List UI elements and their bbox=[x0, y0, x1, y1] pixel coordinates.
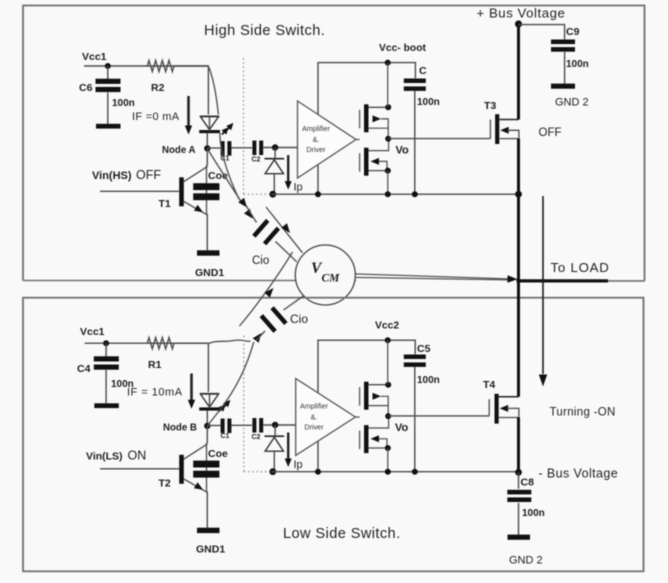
svg-text:GND1: GND1 bbox=[196, 544, 225, 556]
node B bbox=[163, 423, 211, 434]
ground bar C4 bbox=[94, 403, 119, 408]
wire upper source (bottom) bbox=[368, 406, 388, 417]
wire C8 to ground bbox=[518, 503, 520, 535]
label OFF at T3 bbox=[539, 127, 562, 139]
svg-text:100n: 100n bbox=[566, 59, 589, 70]
wire Vcc1 to C4 bbox=[105, 343, 107, 358]
svg-text:Coe: Coe bbox=[208, 448, 228, 460]
wire source to rail (bottom) bbox=[387, 448, 389, 472]
op-amp U2 Amplifier-Driver (bottom) bbox=[296, 379, 356, 456]
optocoupler dashed boundary (bottom) bbox=[244, 336, 270, 472]
svg-text:Turning -ON: Turning -ON bbox=[550, 407, 616, 419]
svg-text:T3: T3 bbox=[484, 100, 496, 112]
wire cathode to node A bbox=[206, 133, 208, 148]
current arrow IF=0mA (top) bbox=[132, 96, 192, 135]
svg-text:Vo: Vo bbox=[395, 422, 409, 434]
flow arrowhead 1 (top) bbox=[238, 198, 247, 208]
bus wire load down to T4 bbox=[517, 281, 520, 397]
wire LED to node A bbox=[209, 117, 211, 131]
svg-text:R2: R2 bbox=[151, 82, 165, 94]
capacitor C4 bbox=[77, 356, 134, 390]
svg-text:Amplifier: Amplifier bbox=[300, 402, 329, 411]
wire T1 emitter to GND1 bbox=[206, 214, 208, 250]
current arrow IF=10mA (bottom) bbox=[127, 374, 195, 409]
svg-text:&.: &. bbox=[313, 135, 320, 144]
wire C2 to amp input (bottom) bbox=[263, 424, 295, 426]
wire Vo to T3 gate bbox=[388, 138, 490, 140]
svg-text:100n: 100n bbox=[417, 375, 440, 386]
current flow long arrow bbox=[539, 196, 547, 387]
wire upper drain (bottom) bbox=[368, 382, 391, 388]
common-mode curve from R2 corner (top) bbox=[209, 68, 239, 200]
svg-text:GND 2: GND 2 bbox=[555, 97, 589, 109]
wire lower drain to Vo (top) bbox=[368, 139, 388, 151]
wire C5 to bottom rail bbox=[414, 367, 416, 472]
LED light arrows (bottom) bbox=[219, 400, 231, 412]
svg-text:T2: T2 bbox=[159, 478, 171, 490]
svg-text:To LOAD: To LOAD bbox=[551, 260, 610, 275]
svg-text:- Bus Voltage: - Bus Voltage bbox=[539, 467, 619, 481]
wire node to photodiode (top) bbox=[274, 148, 276, 159]
svg-text:Node B: Node B bbox=[163, 423, 197, 434]
wire bus voltage to C9 bbox=[519, 25, 565, 40]
capacitor C9 bbox=[551, 26, 589, 70]
svg-text:&.: &. bbox=[311, 413, 318, 422]
wire T2 emitter to GND1 bbox=[206, 492, 208, 528]
svg-text:Ip: Ip bbox=[294, 459, 303, 471]
svg-text:C6: C6 bbox=[79, 82, 93, 94]
wire rail to upper drain (bottom) bbox=[387, 340, 389, 385]
ground bar GND1 (top) bbox=[195, 250, 224, 279]
wire VCM to load node bbox=[355, 274, 510, 280]
wavy wire R1 corner (bottom) bbox=[208, 340, 250, 344]
node A bbox=[162, 145, 211, 156]
svg-text:IF =0 mA: IF =0 mA bbox=[132, 111, 180, 123]
svg-text:T1: T1 bbox=[159, 198, 171, 210]
svg-text:Vin(HS): Vin(HS) bbox=[92, 170, 132, 182]
svg-text:C9: C9 bbox=[566, 26, 580, 38]
wire node to photodiode (bottom) bbox=[274, 425, 276, 436]
capacitor C (top) bbox=[404, 65, 440, 108]
mosfet driver lower (top) bbox=[360, 148, 369, 176]
wire T3 drain to bus bbox=[499, 119, 518, 121]
enclosure box Low Side bbox=[23, 298, 644, 572]
wire C to bottom rail (top) bbox=[414, 91, 416, 194]
svg-text:GND1: GND1 bbox=[195, 267, 224, 279]
svg-text:T4: T4 bbox=[483, 379, 495, 391]
body arrow lower (top) bbox=[371, 158, 388, 171]
LED light arrows (top) bbox=[222, 123, 234, 135]
node - Bus Voltage bbox=[515, 467, 618, 481]
wire C9 to ground bbox=[564, 52, 566, 84]
wire T1 collector to node A bbox=[206, 148, 208, 165]
mosfet driver upper (top) bbox=[360, 104, 369, 132]
wire amp left vertical (top) bbox=[317, 164, 319, 195]
svg-text:C: C bbox=[419, 65, 427, 77]
wire C6 to ground bbox=[107, 93, 109, 124]
wire R1 to LED corner bbox=[174, 343, 208, 392]
photodiode (bottom) bbox=[265, 436, 285, 451]
node Vcc2 rail bbox=[375, 321, 399, 344]
capacitor C1 (top) bbox=[221, 141, 232, 162]
capacitor Cio (bottom) bbox=[260, 306, 309, 333]
svg-text:Amplifier: Amplifier bbox=[302, 124, 331, 133]
node Vo (top) bbox=[385, 136, 409, 157]
LED optocoupler (bottom) bbox=[199, 394, 220, 411]
svg-text:OFF: OFF bbox=[136, 168, 161, 182]
wire to Cio (top) bbox=[246, 206, 257, 223]
wire lower drain to Vo (bottom) bbox=[368, 416, 388, 428]
wire amp rail top (top) bbox=[318, 63, 415, 116]
ground bar C6 bbox=[96, 124, 121, 129]
svg-text:Vcc1: Vcc1 bbox=[82, 51, 107, 63]
wire To LOAD thick bbox=[517, 279, 609, 282]
label High Side Switch bbox=[204, 23, 325, 39]
node + Bus Voltage bbox=[515, 20, 522, 27]
wire T4 source bbox=[499, 417, 519, 419]
LED optocoupler (top) bbox=[199, 116, 220, 133]
svg-text:Cio: Cio bbox=[252, 255, 269, 267]
wire Vcc1 rail (top) bbox=[84, 65, 208, 67]
svg-text:Driver: Driver bbox=[306, 145, 326, 154]
svg-text:Cio: Cio bbox=[290, 312, 308, 326]
wire amp rail top (bottom) bbox=[318, 340, 415, 393]
mosfet driver lower (bottom) bbox=[360, 425, 369, 453]
svg-text:+ Bus Voltage: + Bus Voltage bbox=[477, 6, 566, 21]
transistor T1 bbox=[159, 166, 208, 215]
label Vin(HS) bbox=[92, 168, 161, 182]
svg-text:Vin(LS): Vin(LS) bbox=[86, 451, 123, 463]
common-mode curve from node A (top) bbox=[209, 151, 242, 202]
svg-text:R1: R1 bbox=[148, 359, 162, 371]
flow annotation arrow (top) bbox=[266, 207, 303, 253]
wire Vcc1 rail (bottom) bbox=[85, 342, 209, 344]
svg-text:High Side Switch.: High Side Switch. bbox=[204, 23, 325, 39]
junction source rail (bottom) bbox=[385, 469, 391, 475]
capacitor C8 bbox=[507, 477, 544, 520]
wire photodiode to rail (top) bbox=[273, 174, 275, 194]
resistor R1 bbox=[147, 338, 174, 371]
current arrow Ip (top) bbox=[285, 155, 303, 193]
svg-text:100n: 100n bbox=[417, 97, 440, 108]
wire C1 to C2 (top) bbox=[232, 147, 253, 149]
wire -bus node to C8 bbox=[518, 472, 520, 488]
svg-text:Ip: Ip bbox=[294, 182, 303, 194]
svg-text:C8: C8 bbox=[521, 477, 535, 489]
wire lower source (bottom) bbox=[368, 445, 390, 451]
optocoupler dashed boundary (top) bbox=[244, 58, 271, 194]
junction C2-diode (bottom) bbox=[272, 422, 278, 428]
body arrow upper (top) bbox=[373, 115, 389, 128]
wire lower source (top) bbox=[368, 168, 390, 174]
wire R2 to LED corner bbox=[174, 66, 208, 115]
enclosure box High Side bbox=[23, 6, 645, 281]
capacitor C6 bbox=[79, 79, 135, 109]
flow arrowhead (bottom) bbox=[253, 333, 262, 343]
body arrow lower (bottom) bbox=[371, 435, 388, 448]
label Turning -ON bbox=[550, 407, 616, 419]
svg-text:C2: C2 bbox=[252, 434, 261, 441]
photodiode (top) bbox=[265, 159, 285, 174]
wire node B to C1 bbox=[207, 425, 220, 427]
junction C5 rail (bottom) bbox=[412, 469, 418, 475]
capacitor C2 (top) bbox=[252, 141, 264, 164]
body arrow T3 bbox=[500, 127, 519, 139]
wire amp bottom rail (bottom) bbox=[272, 471, 519, 473]
mosfet driver upper (bottom) bbox=[360, 382, 369, 410]
svg-text:C4: C4 bbox=[77, 363, 91, 375]
body arrow upper (bottom) bbox=[373, 393, 389, 406]
label + Bus Voltage bbox=[477, 6, 566, 21]
svg-text:ON: ON bbox=[128, 449, 147, 463]
junction photodiode-rail (top) bbox=[269, 191, 276, 198]
junction C rail (top) bbox=[412, 191, 418, 197]
junction source rail (top) bbox=[385, 191, 391, 197]
ground bar GND1 (bottom) bbox=[196, 528, 225, 556]
wire source to rail (top) bbox=[387, 171, 389, 195]
svg-text:IF = 10mA: IF = 10mA bbox=[127, 387, 183, 399]
wire T3 source bbox=[499, 138, 519, 140]
wire gate bus (bottom) bbox=[355, 416, 359, 418]
junction photodiode-rail (bottom) bbox=[269, 468, 276, 475]
wire T4 drain to bus bbox=[499, 396, 519, 398]
node Vcc1 (top) bbox=[82, 51, 111, 69]
junction amp-left rail (top) bbox=[315, 191, 321, 197]
ground bar GND2 (bottom) bbox=[508, 535, 543, 567]
wire T1 base bbox=[100, 190, 179, 192]
label Low Side Switch bbox=[283, 526, 401, 542]
svg-text:Vcc- boot: Vcc- boot bbox=[379, 43, 426, 54]
label Vin(LS) bbox=[86, 449, 146, 463]
wire C1 to C2 (bottom) bbox=[232, 424, 253, 426]
wire Vcc1 to C6 bbox=[107, 66, 109, 81]
junction amp-left rail (bottom) bbox=[315, 469, 321, 475]
wire LED to node B bbox=[209, 394, 211, 408]
svg-text:CM: CM bbox=[322, 273, 341, 285]
resistor R2 bbox=[147, 60, 174, 94]
wire C4 to ground bbox=[105, 370, 107, 403]
bus wire + to T3 drain bbox=[517, 24, 520, 120]
bus wire T3 source down to load bbox=[517, 139, 520, 281]
capacitor Coe (bottom) bbox=[193, 443, 228, 492]
wire Cio to VCM (bottom) bbox=[284, 296, 304, 310]
svg-text:GND 2: GND 2 bbox=[509, 555, 543, 567]
svg-text:Low Side Switch.: Low Side Switch. bbox=[283, 526, 401, 542]
bus wire T4 source to -bus node bbox=[517, 418, 520, 473]
wire Cio to VCM (top) bbox=[276, 242, 297, 262]
svg-text:100n: 100n bbox=[522, 508, 545, 519]
junction bus - amp rail (top) bbox=[515, 191, 522, 198]
svg-text:C2: C2 bbox=[252, 157, 261, 164]
node VCM common-mode source bbox=[295, 245, 355, 305]
current arrow Ip (bottom) bbox=[285, 433, 303, 472]
wire T2 base bbox=[100, 468, 179, 470]
ground bar GND2 (top) bbox=[551, 84, 589, 109]
common-mode curve from node B (bottom) bbox=[208, 342, 254, 426]
svg-text:Driver: Driver bbox=[304, 423, 324, 432]
wire photodiode to rail (bottom) bbox=[273, 451, 275, 471]
svg-text:Vcc2: Vcc2 bbox=[375, 321, 399, 332]
flow arrowhead to load bbox=[507, 275, 517, 283]
transistor T3 bbox=[484, 100, 499, 144]
transistor T4 bbox=[483, 379, 499, 424]
svg-text:OFF: OFF bbox=[539, 127, 562, 139]
body arrow T4 bbox=[500, 405, 519, 418]
wire amp left vertical (bottom) bbox=[317, 441, 319, 472]
svg-text:C5: C5 bbox=[417, 343, 431, 355]
wire amp bottom rail (top) bbox=[272, 193, 519, 195]
capacitor C2 (bottom) bbox=[252, 418, 264, 441]
wire T2 collector to node B bbox=[206, 426, 208, 443]
wire upper drain (top) bbox=[368, 104, 391, 110]
node Vcc-boot rail (top) bbox=[379, 43, 426, 66]
node Vo (bottom) bbox=[385, 413, 408, 434]
svg-text:Vo: Vo bbox=[396, 145, 410, 157]
flow arrowhead 2 (top) bbox=[244, 209, 253, 219]
transistor T2 bbox=[159, 444, 208, 493]
wire cathode to node B bbox=[206, 411, 208, 426]
capacitor C1 (bottom) bbox=[221, 419, 232, 441]
wire Vo to T4 gate bbox=[388, 415, 489, 417]
wire to Cio (bottom) bbox=[256, 331, 265, 341]
op-amp U1 Amplifier-Driver (top) bbox=[298, 101, 357, 178]
junction C2-diode (top) bbox=[272, 144, 278, 150]
wire gate bus (top) bbox=[356, 139, 360, 141]
label To LOAD bbox=[551, 260, 610, 275]
wire node A to C1 bbox=[207, 147, 220, 149]
svg-text:C1: C1 bbox=[221, 433, 230, 440]
wire rail to upper drain (top) bbox=[387, 63, 389, 108]
capacitor Coe (top) bbox=[193, 165, 228, 214]
svg-text:Node A: Node A bbox=[162, 145, 196, 156]
capacitor C5 bbox=[404, 343, 440, 386]
flow annotation arrow (bottom) bbox=[239, 252, 292, 326]
capacitor Cio (top) bbox=[252, 219, 280, 267]
svg-text:100n: 100n bbox=[112, 98, 135, 109]
svg-text:Vcc1: Vcc1 bbox=[80, 326, 105, 338]
node Vcc1 (bottom) bbox=[80, 326, 109, 346]
wire upper source (top) bbox=[368, 128, 388, 139]
wire C2 to amp input (top) bbox=[263, 147, 297, 149]
